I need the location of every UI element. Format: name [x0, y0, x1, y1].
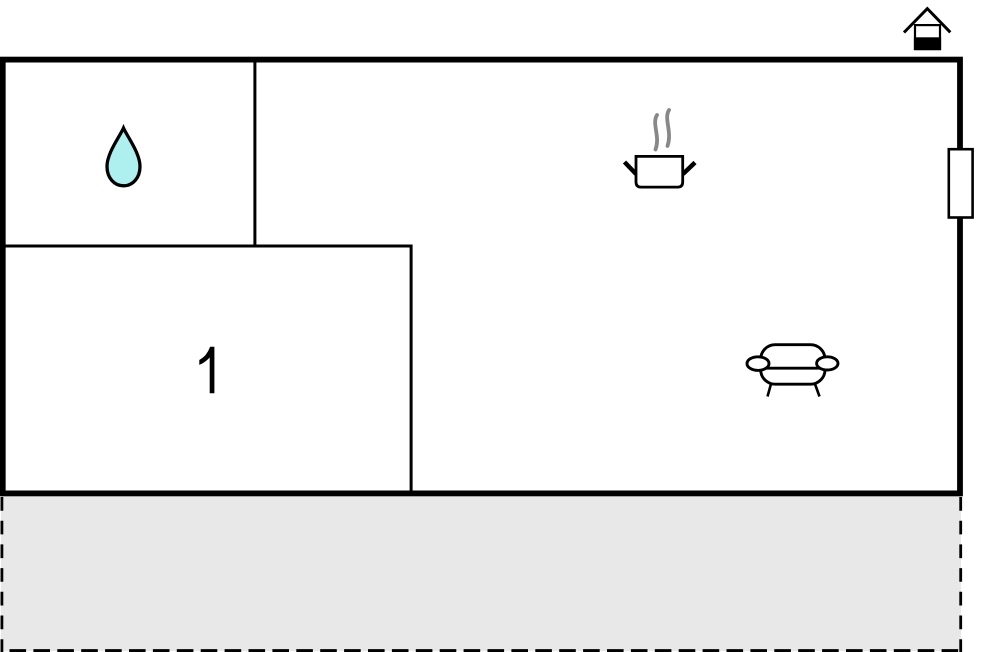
entrance house icon: body: [915, 25, 940, 49]
outer house wall: [3, 60, 960, 494]
entrance house icon: roof: [904, 9, 950, 33]
terrace dashed border left: [0, 497, 3, 652]
room 1 label "1": [199, 347, 214, 394]
entrance house icon: black base: [914, 37, 941, 50]
sofa body: [761, 345, 825, 385]
sofa left leg: [768, 384, 772, 397]
sofa icon (living room): [747, 345, 838, 397]
cooking pot icon (kitchen): [625, 110, 696, 187]
bathroom / room 1 top wall: [1, 245, 413, 248]
steam left: [655, 115, 657, 150]
room 1 right wall: [410, 245, 413, 493]
terrace dashed border bottom: [10, 649, 963, 652]
bathroom right wall: [253, 57, 256, 246]
water drop icon (bathroom): [107, 128, 140, 186]
terrace area (gray): [1, 494, 961, 651]
sofa seat line: [762, 367, 824, 370]
steam right: [667, 110, 669, 146]
pot left handle: [625, 162, 637, 174]
pot right handle: [683, 163, 695, 175]
window on right wall: [949, 149, 973, 217]
terrace dashed border right: [959, 497, 962, 652]
sofa right armrest: [817, 357, 838, 370]
sofa right leg: [815, 384, 820, 397]
pot body: [636, 156, 683, 187]
sofa left armrest: [747, 357, 769, 371]
